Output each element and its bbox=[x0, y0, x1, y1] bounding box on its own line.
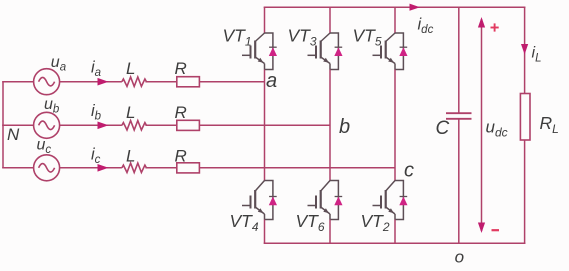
AC source u_b bbox=[34, 112, 60, 138]
svg-text:C: C bbox=[436, 118, 450, 139]
resistor R (phase b) bbox=[177, 120, 200, 130]
capacitor C bbox=[446, 113, 472, 119]
current arrow i_L bbox=[521, 44, 528, 55]
transistor VT3 (IGBT with anti-parallel diode) bbox=[308, 33, 343, 70]
wire: VT1 collector to top rail bbox=[264, 7, 266, 33]
inductor L (phase b) bbox=[122, 121, 147, 130]
current arrow i_a bbox=[98, 78, 109, 86]
wire: VT5 collector to top rail bbox=[394, 7, 396, 33]
svg-text:b: b bbox=[339, 116, 350, 138]
wire: VT5 emitter through node c to VT2 bbox=[394, 70, 396, 181]
svg-text:L: L bbox=[126, 103, 135, 122]
svg-text:R: R bbox=[175, 59, 187, 78]
AC source u_c bbox=[34, 155, 60, 181]
wire: VT4 emitter to bottom rail bbox=[264, 220, 266, 244]
wire: VT3 collector to top rail bbox=[329, 7, 331, 33]
svg-text:a: a bbox=[266, 70, 277, 92]
current arrow i_dc bbox=[410, 4, 421, 11]
inductor L (phase c) bbox=[122, 163, 147, 172]
wire: neutral bus (node N vertical) bbox=[2, 82, 4, 168]
wire: load branch to bottom rail bbox=[524, 140, 526, 243]
wire: phase c resistor to bridge node c bbox=[199, 167, 395, 169]
wire: phase c source to inductor bbox=[60, 167, 122, 169]
wire: phase a from bus to source bbox=[2, 81, 33, 83]
wire: VT6 emitter to bottom rail bbox=[329, 220, 331, 244]
svg-text:R: R bbox=[175, 146, 187, 165]
transistor VT2 (IGBT with anti-parallel diode) bbox=[373, 181, 408, 220]
wire: phase b from bus to source bbox=[2, 124, 33, 126]
wire: phase b source to inductor bbox=[60, 124, 122, 126]
wire: phase a source to inductor bbox=[60, 81, 122, 83]
wire: DC positive top rail bbox=[264, 6, 526, 8]
wire: capacitor branch to bottom rail bbox=[458, 119, 460, 244]
transistor VT5 (IGBT with anti-parallel diode) bbox=[373, 33, 408, 70]
svg-text:N: N bbox=[7, 125, 20, 144]
transistor VT1 (IGBT with anti-parallel diode) bbox=[242, 33, 277, 70]
plus sign (DC+) bbox=[491, 23, 499, 31]
wire: VT1 emitter through node a to VT4 bbox=[264, 70, 266, 181]
inductor L (phase a) bbox=[122, 77, 147, 86]
wire: phase c inductor to resistor bbox=[145, 167, 176, 169]
current arrow i_c bbox=[98, 164, 109, 172]
svg-text:o: o bbox=[455, 248, 464, 267]
wire: phase a inductor to resistor bbox=[145, 81, 176, 83]
svg-text:c: c bbox=[404, 159, 414, 181]
wire: load branch from top rail bbox=[524, 7, 526, 93]
wire: VT3 emitter through node b to VT6 bbox=[329, 70, 331, 181]
AC source u_a bbox=[34, 69, 60, 95]
minus sign (DC-) bbox=[492, 229, 500, 231]
transistor VT4 (IGBT with anti-parallel diode) bbox=[242, 181, 277, 220]
current arrow i_b bbox=[98, 122, 109, 130]
wire: phase a resistor to bridge node a bbox=[199, 81, 264, 83]
load resistor R_L bbox=[520, 94, 530, 141]
resistor R (phase a) bbox=[177, 77, 200, 87]
wire: phase c from bus to source bbox=[2, 167, 33, 169]
wire: phase b resistor to bridge node b bbox=[199, 124, 330, 126]
transistor VT6 (IGBT with anti-parallel diode) bbox=[308, 181, 343, 220]
svg-text:L: L bbox=[126, 146, 135, 165]
voltage arrow u_dc (double headed) bbox=[478, 17, 485, 233]
wire: VT2 emitter to bottom rail bbox=[394, 220, 396, 244]
wire: DC negative bottom rail bbox=[264, 242, 526, 244]
resistor R (phase c) bbox=[177, 163, 200, 173]
svg-text:L: L bbox=[126, 59, 135, 78]
svg-text:R: R bbox=[175, 103, 187, 122]
wire: capacitor branch from top rail bbox=[458, 7, 460, 113]
wire: phase b inductor to resistor bbox=[145, 124, 176, 126]
